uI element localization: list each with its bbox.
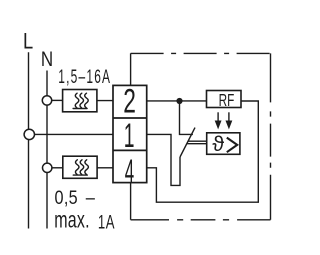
svg-text:–: – (86, 187, 95, 209)
svg-text:max.: max. (54, 208, 89, 234)
svg-text:0,5: 0,5 (55, 187, 79, 209)
svg-text:RF: RF (219, 92, 235, 111)
svg-text:ϑ: ϑ (212, 132, 224, 156)
svg-text:1,5–16A: 1,5–16A (58, 66, 111, 88)
svg-text:1: 1 (124, 116, 135, 154)
svg-text:L: L (23, 30, 33, 54)
svg-text:N: N (41, 47, 53, 71)
svg-text:4: 4 (125, 151, 134, 190)
svg-text:1A: 1A (98, 212, 115, 233)
